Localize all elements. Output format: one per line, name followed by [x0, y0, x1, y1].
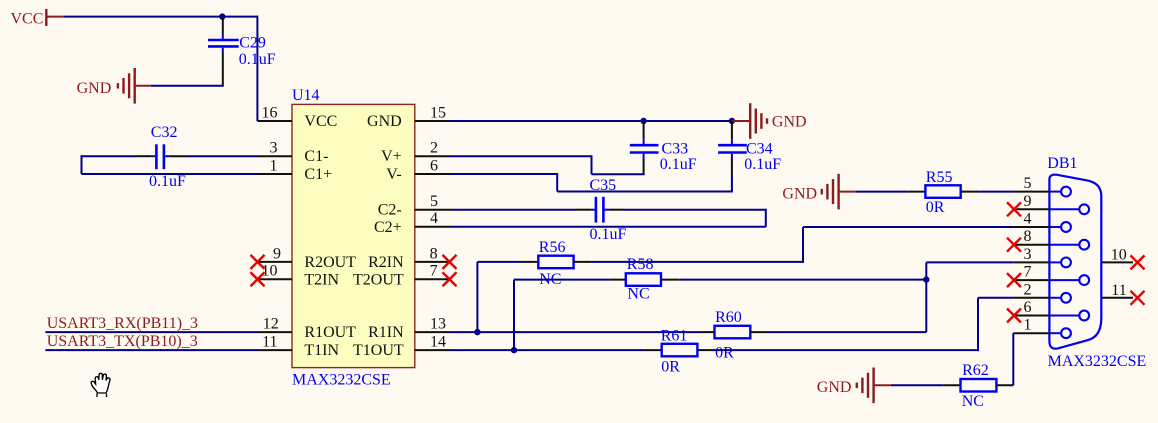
svg-text:0R: 0R [926, 199, 945, 216]
svg-text:9: 9 [273, 245, 281, 262]
svg-text:7: 7 [430, 263, 438, 280]
svg-text:8: 8 [430, 245, 438, 262]
op-amp U14 body MAX3232CSE [292, 87, 415, 388]
svg-text:C1-: C1- [304, 148, 328, 165]
DB1 pin 4 [1013, 211, 1071, 232]
wire R62 up to DB pin1 [1012, 333, 1014, 385]
DB1 pin 3 [1013, 246, 1071, 267]
wire C29 to GND [151, 85, 224, 87]
no-connect X pin 8 [443, 255, 457, 269]
wire R1IN net pin13 [450, 331, 701, 333]
wire C2- to C35 [451, 209, 576, 211]
capacitor C33 [630, 121, 697, 175]
svg-text:T1IN: T1IN [304, 342, 339, 359]
svg-text:VCC: VCC [304, 113, 337, 130]
pin 5 C2- [378, 193, 451, 219]
ground GND (R62) [817, 368, 891, 404]
pin 4 C2+ [374, 210, 451, 236]
no-connect X DB pin 8 [1007, 238, 1021, 252]
no-connect X DB pin 10 [1131, 255, 1145, 269]
svg-text:V-: V- [386, 166, 401, 183]
wire V+ to C33 [450, 155, 645, 174]
svg-text:10: 10 [1111, 247, 1127, 264]
svg-text:GND: GND [817, 379, 852, 396]
svg-text:USART3_RX(PB11)_3: USART3_RX(PB11)_3 [47, 315, 198, 332]
wire GND to R55 [856, 191, 908, 193]
svg-text:R55: R55 [926, 169, 953, 186]
DB1 pin 10 stub [1101, 247, 1133, 264]
svg-text:NC: NC [627, 285, 649, 302]
svg-text:0.1uF: 0.1uF [660, 156, 697, 173]
svg-text:R62: R62 [962, 362, 989, 379]
svg-text:12: 12 [263, 316, 279, 333]
wire R61 to DB pin2 [712, 298, 1013, 351]
svg-text:R58: R58 [627, 256, 654, 273]
capacitor C34 [718, 121, 781, 175]
no-connect X DB pin 11 [1131, 291, 1145, 305]
svg-text:USART3_TX(PB10)_3: USART3_TX(PB10)_3 [47, 333, 198, 350]
pin 14 T1OUT [353, 334, 449, 360]
svg-text:C32: C32 [151, 124, 178, 141]
svg-text:3: 3 [270, 140, 278, 157]
junction R58/R60/DB3 [923, 276, 929, 282]
svg-text:R56: R56 [539, 239, 566, 256]
wire R60 to junction [768, 280, 926, 333]
junction C34 [729, 118, 735, 124]
resistor R58 [609, 256, 680, 302]
capacitor C35 [576, 177, 627, 243]
svg-text:3: 3 [1024, 246, 1032, 263]
wire T1OUT net pin14 [450, 349, 644, 351]
junction C33 [640, 118, 646, 124]
svg-text:15: 15 [430, 104, 446, 121]
wire R1OUT net pin12 [45, 331, 257, 333]
svg-text:2: 2 [1024, 281, 1032, 298]
svg-text:C34: C34 [746, 140, 773, 157]
wire R58 to junction [680, 279, 927, 281]
svg-text:0.1uF: 0.1uF [149, 173, 186, 190]
wire VCC rail [64, 16, 258, 121]
svg-text:0R: 0R [715, 345, 734, 362]
svg-text:R60: R60 [715, 309, 742, 326]
junction pin13/R56 [474, 329, 480, 335]
resistor R61 [644, 328, 712, 376]
svg-text:GND: GND [772, 113, 807, 130]
svg-text:4: 4 [430, 210, 438, 227]
svg-text:C33: C33 [662, 140, 689, 157]
ground GND (top left) [77, 68, 151, 104]
svg-text:GND: GND [367, 113, 402, 130]
no-connect X DB pin 9 [1007, 202, 1021, 216]
svg-text:0.1uF: 0.1uF [744, 156, 781, 173]
cursor hand [91, 373, 110, 397]
wire T1IN net pin11 [45, 349, 257, 351]
svg-text:16: 16 [262, 104, 278, 121]
svg-text:T2IN: T2IN [304, 271, 339, 288]
svg-text:11: 11 [262, 334, 277, 351]
wire pin13 junction up to R56 [477, 262, 521, 332]
wire R55 to DB pin5 [979, 191, 1013, 193]
svg-text:11: 11 [1111, 282, 1126, 299]
svg-text:NC: NC [962, 393, 984, 410]
wire C32 left loop to C1+ [82, 155, 258, 174]
wire junction to DB pin3 [926, 262, 1013, 279]
DB1 pin 9 [1013, 193, 1089, 214]
svg-text:7: 7 [1024, 264, 1032, 281]
svg-text:C29: C29 [239, 34, 266, 51]
ground GND (right of C34) [732, 103, 807, 139]
pin 3 C1- [258, 140, 329, 166]
svg-text:10: 10 [262, 263, 278, 280]
svg-text:GND: GND [77, 80, 112, 97]
svg-text:C35: C35 [590, 177, 617, 194]
no-connect X pin 9 [251, 255, 265, 269]
svg-text:6: 6 [430, 157, 438, 174]
svg-text:V+: V+ [381, 148, 402, 165]
capacitor C32 [137, 124, 187, 190]
pin 10 T2IN [258, 263, 340, 289]
junction pin14/R58 [511, 347, 517, 353]
svg-text:5: 5 [1024, 175, 1032, 192]
svg-text:VCC: VCC [11, 11, 44, 28]
DB1 pin 6 [1013, 299, 1089, 320]
svg-text:8: 8 [1024, 228, 1032, 245]
svg-text:5: 5 [430, 193, 438, 210]
svg-text:C2-: C2- [378, 202, 402, 219]
resistor R60 [701, 309, 769, 362]
wire C35 to C2+ loop [451, 209, 766, 227]
svg-text:6: 6 [1024, 299, 1032, 316]
resistor R62 [944, 362, 1014, 410]
pin 9 R2OUT [258, 245, 357, 271]
wire pin14 junction up to R58 [514, 280, 609, 351]
svg-text:9: 9 [1024, 193, 1032, 210]
pin 11 T1IN [258, 334, 340, 360]
DB1 pin 8 [1013, 228, 1089, 249]
wire GND to R62 [891, 384, 944, 386]
svg-text:1: 1 [270, 157, 278, 174]
pin 2 V+ [381, 140, 449, 166]
svg-text:MAX3232CSE: MAX3232CSE [1048, 353, 1147, 370]
DB1 pin 7 [1013, 264, 1089, 285]
pin 1 C1+ [258, 157, 333, 183]
power port VCC [11, 9, 64, 28]
svg-text:4: 4 [1024, 211, 1032, 228]
pin 15 GND [367, 104, 449, 130]
svg-text:T1OUT: T1OUT [353, 342, 404, 359]
resistor R55 [908, 169, 980, 216]
svg-text:C2+: C2+ [374, 219, 402, 236]
no-connect X pin 7 [443, 272, 457, 286]
svg-text:MAX3232CSE: MAX3232CSE [292, 371, 391, 388]
svg-text:0.1uF: 0.1uF [239, 51, 276, 68]
ground GND (R55) [782, 174, 856, 210]
no-connect X DB pin 6 [1007, 309, 1021, 323]
svg-text:T2OUT: T2OUT [353, 271, 404, 288]
DB1 pin 5 [1013, 175, 1071, 196]
capacitor C29 [208, 17, 276, 86]
DB1 pin 11 stub [1101, 282, 1133, 299]
svg-text:R1OUT: R1OUT [304, 324, 356, 341]
wire C1- net [186, 155, 258, 157]
no-connect X DB pin 7 [1007, 273, 1021, 287]
pin 8 R2IN [368, 245, 449, 271]
svg-text:DB1: DB1 [1047, 155, 1077, 172]
DB1 pin 2 [1013, 281, 1071, 302]
pin 13 R1IN [368, 316, 449, 342]
svg-text:0R: 0R [661, 359, 680, 376]
svg-text:1: 1 [1024, 317, 1032, 334]
svg-text:14: 14 [430, 334, 446, 351]
pin 6 V- [386, 157, 449, 183]
pin 12 R1OUT [258, 316, 357, 342]
junction VCC/C29 [219, 13, 225, 19]
resistor R56 [521, 239, 592, 288]
pin 16 VCC [257, 104, 337, 130]
svg-text:U14: U14 [292, 87, 320, 104]
svg-text:C1+: C1+ [304, 166, 332, 183]
wire R56 to DB pin4 [592, 227, 1014, 263]
wire GND net pin15 [450, 120, 735, 122]
DB1 pin 1 [1013, 317, 1071, 338]
svg-text:R61: R61 [661, 328, 688, 345]
svg-text:13: 13 [430, 316, 446, 333]
connector DB1 shell [1047, 155, 1146, 370]
svg-text:2: 2 [430, 140, 438, 157]
no-connect X pin 10 [251, 272, 265, 286]
svg-text:0.1uF: 0.1uF [590, 226, 627, 243]
svg-text:R2OUT: R2OUT [304, 254, 356, 271]
svg-text:R2IN: R2IN [368, 254, 404, 271]
svg-text:R1IN: R1IN [368, 324, 404, 341]
wire V- to C34 [450, 173, 732, 193]
pin 7 T2OUT [353, 263, 449, 289]
svg-text:GND: GND [782, 185, 817, 202]
